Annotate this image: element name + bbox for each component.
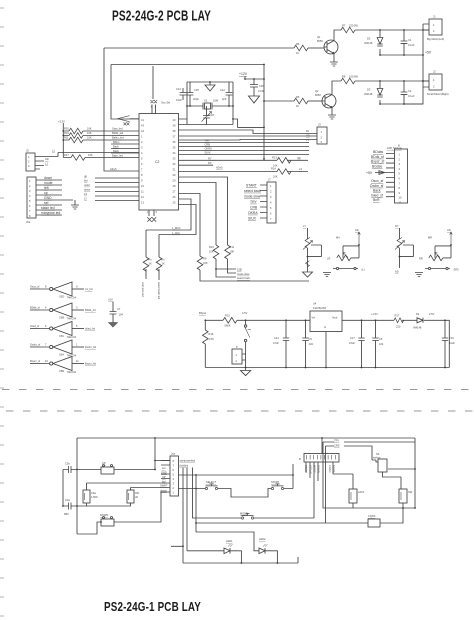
wire select net [179,474,294,476]
svg-text:10K: 10K [273,175,278,179]
jumper Osc Sel [150,100,157,103]
svg-text:CRB: CRB [250,205,258,209]
svg-text:LY: LY [303,224,306,228]
svg-text:TRY: TRY [334,439,339,443]
svg-text:SIGNAL: SIGNAL [309,465,313,475]
svg-text:C1P: C1P [194,88,199,92]
wire [71,438,170,470]
wire vertical bus to R13 [263,65,265,160]
svg-text:10K: 10K [88,153,93,157]
svg-text:10K: 10K [209,250,214,254]
capacitor C20 [253,79,255,96]
net SIUX [179,154,310,156]
wire module pin drops [306,438,333,518]
svg-text:GND: GND [44,196,52,200]
svg-text:PS2-24G-2 PCB LAY: PS2-24G-2 PCB LAY [112,8,211,25]
svg-text:2.5V: 2.5V [429,312,435,316]
resistor R17 [71,155,85,161]
svg-text:Inled_sf: Inled_sf [30,324,39,328]
svg-text:4W: 4W [135,491,139,495]
wire collector Q2 [332,81,341,95]
wire drop J8 right 3 [193,468,242,519]
svg-text:BDmi: BDmi [113,140,120,144]
svg-text:UP: UP [162,475,166,479]
svg-text:+1.5V: +1.5V [371,312,378,316]
svg-text:R11: R11 [230,245,235,249]
svg-text:Vin: Vin [312,316,316,320]
wire L_MAC [146,199,191,230]
wire [85,157,139,159]
svg-text:START: START [246,183,257,187]
svg-text:TRY: TRY [205,139,210,143]
svg-text:C17: C17 [350,336,355,340]
wire [195,475,197,532]
wire CRS net [326,446,373,460]
regulator U4 [310,311,342,332]
svg-text:U5D: U5D [59,295,64,299]
svg-text:1: 1 [76,343,78,347]
svg-text:R13: R13 [272,155,277,159]
wire J3 pin1 net [179,130,318,134]
net TRY [179,142,310,144]
svg-text:104: 104 [119,313,124,317]
svg-text:LY: LY [84,196,87,200]
svg-text:start pow led: start pow led [141,282,145,297]
svg-text:IN4148: IN4148 [413,326,422,330]
wire drop J8 right 1 [171,468,183,564]
svg-text:SWRT: SWRT [160,484,168,488]
svg-text:Vout: Vout [332,316,337,320]
connector J1 [429,19,442,35]
wire J3 pin2 net [179,135,318,137]
svg-text:mode slow: mode slow [244,194,261,198]
transistor Q1 [324,40,338,54]
svg-text:10K: 10K [87,131,92,135]
resistor R7 [341,27,355,33]
svg-text:7: 7 [45,343,47,347]
svg-text:R6: R6 [296,42,300,46]
resistor R11 [69,137,83,143]
resistor R11b [225,245,231,259]
svg-text:1K: 1K [162,262,165,266]
switch SR [425,268,450,270]
wire top rail bottom page [77,437,415,439]
resistor R10 [213,245,219,259]
svg-text:BGdse: BGdse [372,164,382,168]
svg-text:C13: C13 [176,87,181,91]
wire collector Q1 [334,30,341,41]
wire emitter Q1 [333,54,335,63]
svg-text:RR: RR [419,257,423,261]
svg-text:U4: U4 [313,302,317,306]
svg-text:Back: Back [373,189,381,193]
capacitor C6 [375,320,377,367]
svg-text:3: 3 [76,306,78,310]
resistor R8 [341,78,355,84]
svg-text:0.1uF: 0.1uF [408,94,415,98]
svg-text:RY: RY [208,156,212,160]
svg-text:TX: TX [306,138,310,142]
svg-text:4: 4 [45,306,47,310]
svg-text:LED1: LED1 [226,539,233,543]
wire inner loop to Q2 base [111,65,294,120]
svg-text:D3: D3 [367,88,371,92]
wire [111,144,139,153]
svg-text:TRY: TRY [250,200,257,204]
switch SW2 [245,320,247,367]
svg-text:startpowerled: startpowerled [180,459,196,463]
svg-text:SIUX: SIUX [248,216,257,220]
wire osc wrap to bus [233,119,264,127]
svg-text:C1P: C1P [209,113,214,117]
svg-text:Back: Back [113,144,119,148]
svg-text:C6: C6 [379,337,383,341]
svg-text:J6a: J6a [26,220,31,224]
wire [77,492,170,534]
connector J6 [27,177,36,218]
resistor R18 [394,318,404,323]
svg-text:CRS: CRS [334,444,340,448]
wire L_AVA [159,205,196,235]
svg-text:BDdk_sf: BDdk_sf [30,306,40,310]
svg-text:74HC04: 74HC04 [67,335,77,339]
svg-text:left: left [44,186,49,190]
resistor R13 [179,159,309,161]
svg-text:D2: D2 [367,37,371,41]
diode D4 [417,318,423,323]
svg-text:104: 104 [309,342,314,346]
svg-text:10uF: 10uF [449,341,455,345]
resistor R24 [145,230,147,279]
svg-text:C7: C7 [117,307,121,311]
svg-text:RY: RY [395,224,399,228]
ground C20 [249,96,260,103]
svg-text:Bajm_led: Bajm_led [112,153,123,157]
ground J6 [74,200,76,205]
svg-text:0.1uF: 0.1uF [408,43,415,47]
svg-text:Dxdm_sf: Dxdm_sf [30,343,41,347]
capacitor C1P variable [206,106,208,125]
svg-text:Jsa: Jsa [171,452,176,456]
inverter U5B [30,309,49,311]
wire pot loop R [435,246,451,258]
svg-text:Cx_hd: Cx_hd [85,287,93,291]
resistor R9 [197,256,203,270]
svg-text:AD: AD [45,157,49,161]
svg-text:Q1: Q1 [317,35,321,39]
svg-text:LX: LX [84,192,87,196]
svg-text:8: 8 [45,285,47,289]
svg-text:8050: 8050 [317,39,323,43]
wire bottom right net [353,507,415,509]
svg-text:J7: J7 [268,178,271,182]
svg-text:Dxdm_hd: Dxdm_hd [85,345,97,349]
svg-text:2: 2 [155,105,157,109]
svg-text:OKRA: OKRA [248,211,258,215]
svg-text:down: down [84,187,91,191]
svg-text:C20: C20 [259,84,264,88]
svg-text:R16: R16 [209,332,214,336]
svg-text:dowm: dowm [160,489,167,493]
svg-text:Big Motor(Left): Big Motor(Left) [427,37,444,41]
svg-text:D4: D4 [416,312,420,316]
wire ground rail [205,367,449,369]
svg-text:AAT1: AAT1 [358,490,365,494]
resistor R19 [69,133,83,139]
node arrow pin1 [118,116,139,122]
svg-text:L3: L3 [299,167,302,171]
connector J8 [170,456,179,496]
wire power output net [342,320,449,367]
IC bottom pin jumper [149,210,154,216]
svg-text:Osc Sel: Osc Sel [161,101,171,105]
svg-text:8050: 8050 [315,93,321,97]
svg-text:AD+5: AD+5 [216,166,223,170]
svg-text:P: P [236,345,238,349]
svg-text:C3a: C3a [65,498,70,502]
ground pot R [415,273,423,277]
wire [131,487,171,489]
wire motor net 2 [355,80,429,82]
capacitor C7 [110,312,117,315]
wire outer loop to Q1 base [104,48,294,171]
svg-text:Rx: Rx [306,129,310,133]
svg-text:X1: X1 [204,99,208,103]
resistor R14 [179,171,309,173]
wire [83,139,139,141]
connector BT1 [232,349,242,364]
svg-text:+12V: +12V [239,72,248,76]
svg-text:C14: C14 [274,336,279,340]
ground pot L [323,273,331,277]
svg-text:+5V: +5V [425,51,432,55]
svg-text:6: 6 [45,324,47,328]
svg-text:SELECT: SELECT [206,480,217,484]
svg-text:74HC04: 74HC04 [67,317,77,321]
svg-text:SW: SW [408,490,413,494]
wire J3 pin3 net [179,139,318,142]
svg-text:L1: L1 [52,149,55,153]
svg-text:Rx: Rx [149,258,153,262]
svg-text:IN4148: IN4148 [364,41,373,45]
wire escape bus pin29 [179,183,217,246]
wire [245,78,264,80]
svg-text:+5V: +5V [108,298,113,302]
svg-text:KIA78L05X: KIA78L05X [313,306,326,310]
ground C7 [108,323,117,328]
svg-text:up: up [84,175,87,178]
svg-text:10K: 10K [230,250,235,254]
svg-text:MODE: MODE [313,465,317,473]
svg-text:mode: mode [44,181,53,185]
svg-text:AD: AD [395,270,399,274]
svg-text:74HC04: 74HC04 [67,370,77,374]
svg-text:(led)led: (led)led [180,464,189,468]
svg-text:R14: R14 [271,167,276,171]
svg-text:SR3: SR3 [454,267,460,271]
connector J3 [317,127,327,144]
net OKRA [179,150,310,152]
svg-text:5: 5 [76,324,78,328]
svg-text:1K: 1K [149,262,152,266]
switch SL [333,268,358,270]
svg-text:Inled_hd: Inled_hd [85,327,96,331]
resistor R16 [204,320,206,367]
wire bottom rail [183,557,298,563]
svg-text:J3: J3 [318,123,321,127]
capacitor CE1 [83,490,90,503]
svg-text:+5V: +5V [366,171,373,175]
svg-text:SK: SK [376,452,380,456]
svg-text:off: off [135,495,138,499]
svg-text:1: 1 [147,210,149,214]
svg-text:mold: mold [84,183,90,187]
svg-text:220: 220 [396,325,401,329]
svg-text:START: START [304,465,308,474]
svg-text:BDdk_led: BDdk_led [112,131,124,135]
svg-text:up: up [44,191,48,195]
wire pot loop L [343,246,359,258]
diode D2 [379,30,381,55]
svg-text:Oscx_sf: Oscx_sf [30,285,40,289]
svg-text:104: 104 [379,342,384,346]
page separator dashed line 2 [6,410,474,412]
svg-text:BDdk_hd: BDdk_hd [85,308,96,312]
svg-text:R8: R8 [342,75,346,79]
wire bottom net 2 [380,103,423,105]
svg-text:16M: 16M [213,99,218,103]
svg-text:(L): (L) [362,267,365,271]
resistor R6 [294,45,308,51]
svg-text:9: 9 [76,285,78,289]
ground power [245,367,247,369]
svg-text:1.5KF: 1.5KF [91,495,98,499]
svg-text:Q2: Q2 [315,89,319,93]
inverter U5A [30,346,49,348]
svg-text:SIUX: SIUX [205,151,211,155]
svg-text:R19: R19 [64,131,69,135]
svg-text:C1: C1 [408,38,412,42]
svg-text:U5B: U5B [59,316,64,320]
svg-text:sel: sel [44,201,49,205]
wire [87,482,171,484]
svg-text:BDdk_sf: BDdk_sf [371,155,384,159]
svg-text:1K: 1K [296,51,299,55]
capacitor C1 [403,30,405,55]
svg-text:select back: select back [237,276,251,280]
svg-text:AD: AD [447,228,451,232]
wire right rail [414,438,416,508]
svg-text:RX: RX [208,161,212,165]
svg-text:10: 10 [45,359,48,363]
svg-text:Small Motor(Right): Small Motor(Right) [427,92,449,96]
svg-text:Inled_sf: Inled_sf [371,193,383,197]
svg-text:LR: LR [327,257,330,261]
wire [83,130,139,132]
resistor R25 [158,235,160,281]
svg-text:15uF: 15uF [176,98,182,102]
svg-text:C5: C5 [309,337,313,341]
crystal oscillator loop wire [187,82,233,125]
svg-text:Dxdm_sf: Dxdm_sf [370,184,383,188]
wire [308,47,324,49]
capacitor C13 [182,88,184,100]
svg-text:1.5K: 1.5K [209,337,215,341]
wire CRS drop [325,446,327,523]
svg-text:R9: R9 [203,257,207,261]
svg-text:74HC04: 74HC04 [67,296,77,300]
pot VR2 [337,255,351,261]
svg-text:G: G [324,325,326,329]
svg-text:10K: 10K [203,261,208,265]
svg-text:led: led [162,479,166,483]
jumper pin row2 [124,123,130,126]
svg-text:J1: J1 [433,15,436,19]
svg-text:L_MAC: L_MAC [172,226,181,230]
svg-text:Start_led: Start_led [112,127,123,131]
left edge registration tick marks [0,8,4,616]
svg-text:BxR: BxR [373,198,380,202]
svg-text:C6a: C6a [91,491,96,495]
svg-text:J5: J5 [26,149,29,153]
capacitor C17 [361,320,363,367]
capacitor C1P osc [189,82,191,106]
svg-text:U5E: U5E [59,369,64,373]
resistor R5 [294,98,308,104]
svg-text:Rb: Rb [298,156,302,160]
inverter U5E [30,363,49,365]
wire motor net 1 [355,29,429,31]
svg-text:100.5W: 100.5W [349,75,358,79]
wire IC top pin to osc select [152,66,156,114]
resistor R20 [69,128,83,134]
svg-text:U5A: U5A [59,353,64,357]
wire [35,153,139,170]
svg-text:11: 11 [76,359,79,363]
wire LED2 feed [196,532,259,551]
svg-text:560K: 560K [225,324,231,328]
svg-text:U5C: U5C [59,334,64,338]
svg-text:sel: sel [162,466,166,470]
transistor Q2 [322,94,336,108]
svg-text:CHAN: CHAN [328,465,332,472]
crystal X1 [187,105,233,107]
connector J5 [26,153,35,171]
svg-text:R11: R11 [64,136,69,140]
svg-text:PS2-24G-1 PCB LAY: PS2-24G-1 PCB LAY [104,600,201,614]
svg-text:R7: R7 [342,24,346,28]
svg-text:stasn led: stasn led [41,206,55,210]
inverter U5D [30,288,49,290]
page separator dashed line 1 [2,389,474,391]
svg-text:CQSS: CQSS [368,514,376,518]
wire drop J8 right 2 [186,468,188,551]
wire TRY net [323,441,415,443]
wire escape bus pin27 [179,194,201,257]
diode D3 [379,81,381,104]
svg-text:20pF: 20pF [193,97,199,101]
resistor RB2 [349,489,357,503]
svg-text:L1: L1 [45,162,48,166]
pot VR4 [429,255,443,261]
svg-text:R20: R20 [64,127,69,131]
capacitor C12 osc [228,82,230,106]
ground osc [209,82,211,85]
IC pin numbers [141,118,176,205]
wire +5V net [380,54,423,56]
svg-text:C2: C2 [155,160,159,164]
svg-text:C16: C16 [449,336,454,340]
